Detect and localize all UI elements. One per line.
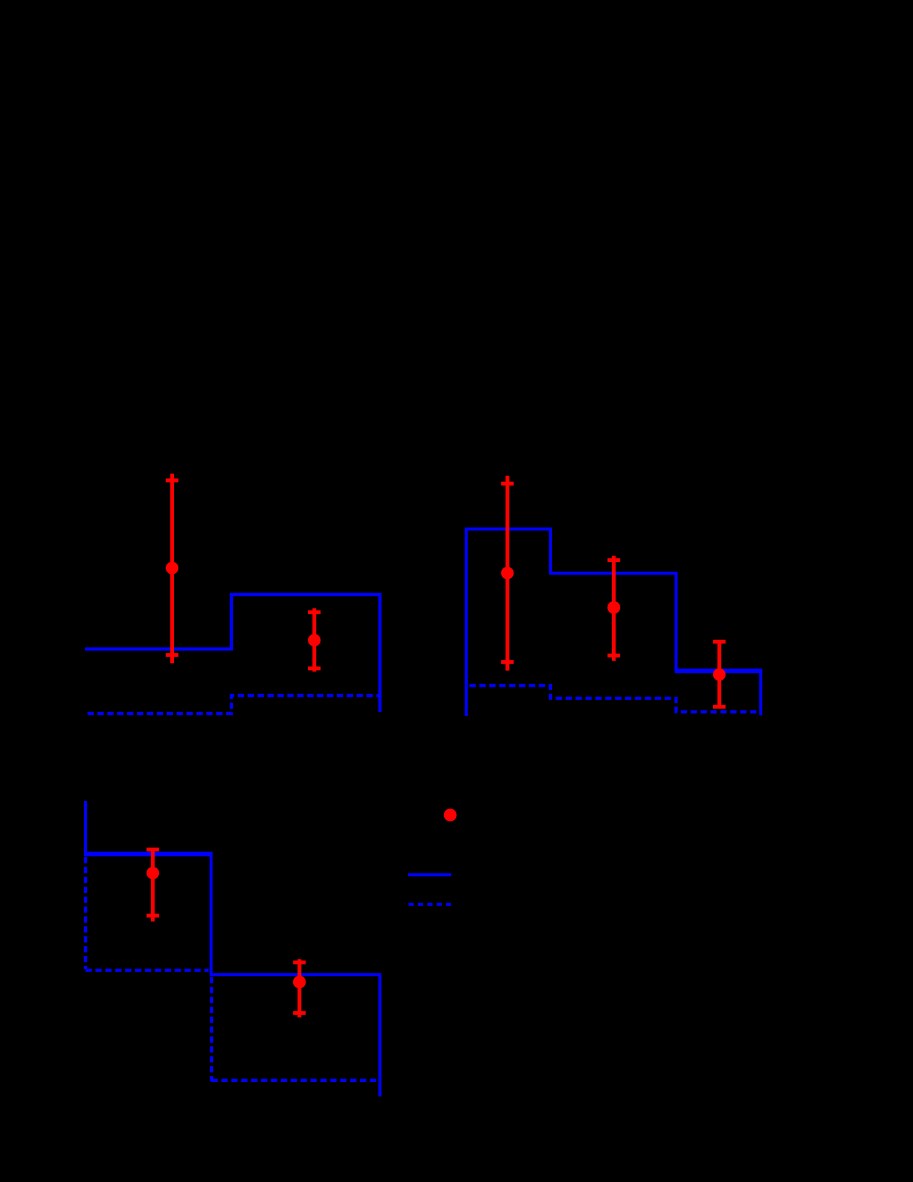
legend dashed line bbox=[409, 903, 452, 906]
data point B2 marker bbox=[607, 601, 620, 614]
plot B solid histogram bin3 thick segment bbox=[676, 671, 761, 716]
legend data marker bbox=[444, 809, 457, 822]
data point B2 top cap bbox=[608, 558, 621, 562]
plot C solid histogram bin1 thick segment bbox=[84, 852, 213, 857]
data point B2 bottom cap bbox=[608, 654, 621, 658]
data point C1 bottom cap bbox=[147, 914, 160, 918]
plot C dashed histogram left vertical bbox=[84, 857, 87, 969]
data point C2 bottom cap bbox=[293, 1011, 306, 1015]
data point A1 bottom cap bbox=[166, 653, 179, 657]
data point C1 marker bbox=[147, 867, 160, 880]
data point A2 marker bbox=[308, 634, 321, 647]
plot A solid histogram (top-left) bbox=[85, 595, 380, 713]
data point B1 top cap bbox=[501, 482, 514, 486]
data point A2 error line bbox=[312, 608, 316, 671]
data point B2 error line bbox=[612, 556, 616, 661]
plot A dashed histogram bbox=[88, 696, 380, 714]
data point A2 top cap bbox=[308, 610, 321, 614]
data point B3 bottom cap bbox=[713, 705, 726, 709]
plot C solid histogram (bottom-left) bbox=[86, 801, 380, 1097]
data point C1 top cap bbox=[147, 848, 160, 852]
data point B1 error line bbox=[505, 476, 509, 671]
data point A1 error line bbox=[170, 474, 174, 664]
plot B dashed histogram bbox=[470, 686, 760, 712]
legend solid line bbox=[408, 873, 451, 876]
data point B3 marker bbox=[713, 668, 726, 681]
data point A2 bottom cap bbox=[308, 667, 321, 671]
data point B1 bottom cap bbox=[501, 660, 514, 664]
data point C2 top cap bbox=[293, 961, 306, 965]
data point C2 marker bbox=[293, 976, 306, 989]
data point B3 error line bbox=[717, 641, 721, 707]
data point C1 error line bbox=[151, 849, 155, 922]
data point C2 error line bbox=[297, 959, 301, 1017]
data point B1 marker bbox=[501, 567, 514, 580]
data point A1 top cap bbox=[166, 478, 179, 482]
data point A1 marker bbox=[166, 562, 179, 575]
plot C dashed histogram bbox=[86, 970, 380, 1081]
plot B solid histogram (top-right) bbox=[466, 529, 676, 716]
data point B3 top cap bbox=[713, 640, 726, 644]
